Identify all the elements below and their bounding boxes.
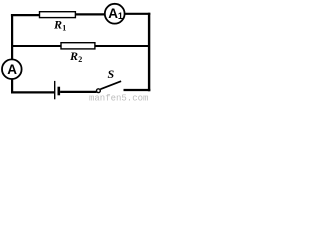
switch pivot: [97, 89, 101, 93]
svg-text:R: R: [69, 49, 78, 63]
svg-text:A: A: [7, 62, 17, 77]
wire switch to bottom-right corner: [124, 89, 151, 91]
wire A1 to top-right corner: [125, 13, 151, 15]
battery positive plate: [54, 81, 56, 99]
resistor R2: [61, 43, 95, 49]
ammeter A1: [105, 4, 125, 24]
svg-text:R: R: [53, 18, 62, 32]
wire R2 branch left: [11, 45, 61, 47]
wire R2 branch right: [95, 45, 149, 47]
wire left vertical lower: [11, 79, 13, 94]
switch blade: [100, 81, 121, 89]
svg-text:2: 2: [78, 55, 82, 64]
svg-text:manfen5.com: manfen5.com: [89, 94, 148, 102]
wire R1 to A1: [75, 13, 105, 15]
wire left vertical upper: [11, 14, 13, 60]
svg-text:1: 1: [118, 11, 123, 21]
svg-text:S: S: [108, 67, 115, 81]
wire right vertical: [148, 13, 150, 92]
resistor R1: [40, 12, 76, 18]
svg-text:A: A: [108, 6, 118, 21]
svg-text:1: 1: [62, 24, 66, 33]
wire top-left horizontal: [11, 14, 41, 16]
battery negative plate: [57, 87, 60, 96]
wire battery to switch: [60, 91, 97, 93]
ammeter A: [2, 59, 22, 79]
wire bottom-left: [11, 91, 54, 93]
